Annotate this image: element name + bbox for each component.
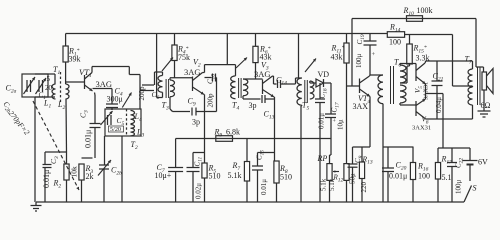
wire T4 secondary bottom to C13 (242, 96, 244, 99)
svg-text:100k: 100k (417, 6, 433, 15)
transformer T7 primary lower (468, 87, 473, 105)
resistor R8 (274, 161, 279, 183)
transistor VT1 (84, 75, 86, 89)
capacitor C3 emitter bypass (90, 123, 101, 125)
transformer T5 secondary (310, 81, 314, 99)
wire collector to C6 (139, 75, 141, 91)
ground bus wire (36, 201, 464, 203)
resistor R14 (387, 32, 404, 38)
svg-text:3AG: 3AG (96, 79, 113, 89)
svg-text:3p: 3p (192, 118, 200, 127)
wire T6 sec bottom to VT6 base (399, 103, 401, 105)
wire T2 right side (139, 91, 141, 110)
svg-text:S: S (473, 184, 477, 193)
transformer T2 winding L4 (131, 111, 135, 124)
resistor R4 (174, 34, 176, 46)
wire T3 secondary top to VT2 base (169, 78, 171, 80)
svg-text:3AG: 3AG (184, 67, 201, 77)
wire AGC bus (176, 138, 331, 140)
T2 tuning arrow (122, 93, 131, 108)
wire emitters join (425, 84, 427, 99)
capacitor C10 (205, 77, 212, 79)
speaker ground (483, 90, 485, 111)
resistor R3 (79, 164, 84, 180)
capacitor C2a (26, 80, 28, 92)
svg-text:100μ: 100μ (455, 180, 463, 195)
svg-text:510: 510 (280, 173, 292, 182)
resistor R7 (246, 139, 248, 162)
svg-text:6V: 6V (478, 158, 488, 167)
svg-text:10μ: 10μ (337, 119, 345, 130)
resistor R13 (361, 147, 363, 162)
svg-text:300μ: 300μ (107, 95, 123, 104)
T5 tuning arrow (305, 59, 316, 73)
transformer T6 primary (378, 75, 383, 104)
wire VT4 base (347, 85, 360, 87)
svg-text:5.1k: 5.1k (228, 171, 242, 180)
svg-text:20: 20 (45, 84, 53, 92)
transformer T3 core (165, 79, 167, 98)
RP wiper arrow (333, 171, 339, 173)
wire C10 feedback (216, 78, 218, 112)
wire battery row (438, 147, 470, 149)
svg-text:220: 220 (360, 182, 368, 193)
speaker (482, 72, 487, 90)
battery 6V (469, 148, 471, 160)
capacitor C16 (319, 83, 321, 99)
wire box top to L1 (35, 73, 55, 75)
transformer T6 secondary upper (400, 65, 406, 83)
svg-text:39k: 39k (69, 55, 81, 64)
svg-text:5.1: 5.1 (442, 173, 452, 182)
wire gang link dashed (33, 101, 79, 190)
wire VT1 base (66, 81, 85, 83)
wire VT2 emitter (203, 94, 206, 96)
transformer T3 primary (162, 72, 164, 76)
svg-text:0.01μ: 0.01μ (84, 130, 93, 148)
wire feedback rail A (352, 18, 476, 20)
capacitor C15 (258, 152, 275, 154)
svg-text:0.02μ: 0.02μ (195, 183, 203, 199)
transformer T4 core (238, 78, 240, 98)
capacitor C2b (104, 136, 106, 165)
transformer T2 core (126, 109, 128, 136)
svg-text:3AX: 3AX (353, 102, 369, 111)
transistor VT3 (262, 80, 264, 95)
oscillator T2 box (105, 109, 141, 136)
svg-text:6Ω: 6Ω (481, 101, 491, 110)
capacitor C19 (369, 34, 371, 42)
resistor R15 (409, 35, 411, 45)
transformer T5 core (304, 80, 306, 103)
wire rail B drop to T3 primary (156, 34, 158, 61)
capacitor C6 (142, 84, 154, 86)
switch S (469, 165, 471, 182)
potentiometer RP (330, 118, 332, 156)
wire rail B drop to T5 (298, 34, 300, 79)
wire decoupling node (383, 146, 414, 148)
ground (35, 202, 37, 206)
resistor R16 (412, 147, 414, 163)
wire supply rail B (66, 33, 388, 35)
wire VT4 collector to T6 (369, 75, 372, 76)
capacitor C20 (387, 147, 389, 168)
svg-text:43k: 43k (331, 53, 343, 62)
svg-text:510: 510 (209, 172, 221, 181)
svg-text:100: 100 (389, 38, 401, 47)
svg-text:100: 100 (418, 172, 430, 181)
svg-text:10μ+: 10μ+ (155, 171, 172, 180)
svg-text:2k: 2k (86, 172, 94, 181)
svg-text:5.1k: 5.1k (328, 178, 336, 191)
svg-text:5/20: 5/20 (110, 126, 121, 133)
resistor R10 (407, 16, 423, 22)
wire rail A drop to VT4 base (351, 19, 353, 87)
capacitor C11 (193, 152, 205, 154)
wire speaker to rail A (483, 67, 485, 72)
svg-text:0.01μ: 0.01μ (42, 170, 51, 188)
capacitor C1 trimmer (38, 80, 40, 92)
wire bias node to R2 (66, 152, 68, 164)
wire VT6 collector to T7 (424, 118, 427, 121)
svg-text:200p: 200p (207, 93, 215, 108)
diode VD (309, 81, 311, 83)
transformer T5 primary (299, 77, 302, 79)
transformer T4 secondary (243, 79, 248, 96)
wire T6 sec top to VT5 base (399, 64, 401, 66)
transformer T6 core (390, 66, 392, 104)
wire T6 center tap to R15 (400, 82, 407, 84)
resistor R5 (202, 163, 207, 178)
capacitor C5 (107, 115, 109, 125)
svg-text:10k: 10k (70, 166, 79, 178)
wire T2 bottom to ground (121, 136, 123, 202)
svg-text:100μ: 100μ (355, 54, 363, 69)
transistor VT2 (192, 77, 194, 92)
resistor R12 (344, 164, 349, 181)
svg-text:0.01μ: 0.01μ (318, 113, 326, 129)
resistor R9 (216, 136, 233, 142)
wire C14 to T5 primary (295, 78, 297, 84)
T4 tuning arrow (236, 58, 247, 69)
svg-text:0.04μ: 0.04μ (435, 97, 443, 113)
transformer T6 secondary lower (400, 85, 406, 103)
svg-text:6.8k: 6.8k (226, 128, 240, 137)
wire rail B drop to T4 (226, 34, 228, 65)
transistor VT5 (415, 66, 417, 81)
transistor VT4 (359, 79, 361, 94)
wire detector output (330, 83, 332, 114)
wire VT5 collector to T7 (424, 62, 427, 63)
wire box bottom to L1 (35, 96, 55, 98)
transformer T1 winding L2 (66, 84, 70, 99)
svg-text:0.01μ: 0.01μ (389, 172, 407, 181)
wire emitter tap to battery row (442, 94, 444, 149)
capacitor C21 (436, 61, 438, 81)
capacitor C7 (175, 139, 177, 168)
resistor R11 (346, 34, 348, 44)
transformer T4 primary (235, 65, 237, 76)
capacitor C17 (325, 113, 336, 115)
transistor VT6 (415, 101, 417, 116)
capacitor C2 base bypass (45, 151, 67, 153)
wire T4 secondary top to VT3 base (243, 78, 263, 80)
capacitor C14 (273, 75, 274, 77)
capacitor C13 (243, 98, 261, 100)
wire C3 to R3 bottom jog (82, 157, 93, 159)
capacitor C8 (352, 147, 354, 164)
svg-text:3AX31: 3AX31 (412, 125, 431, 132)
wire VT1 collector rail (91, 67, 93, 73)
svg-text:VD: VD (318, 70, 330, 79)
capacitor C9 (173, 111, 191, 113)
svg-text:200p: 200p (138, 86, 146, 101)
svg-text:75k: 75k (178, 53, 190, 62)
transformer T1 winding L1 (52, 84, 56, 99)
transformer T2 winding L3 (131, 125, 135, 136)
wire T5 primary bottom to ground (300, 105, 303, 107)
wire rail A drop to speaker (475, 19, 477, 68)
resistor R1 (65, 34, 67, 47)
wire VT1 emitter (94, 93, 97, 96)
T3 tuning arrow (162, 58, 173, 72)
wire L2 bottom to bias node (65, 99, 68, 152)
svg-text:RP: RP (317, 154, 328, 163)
transformer T7 core (477, 67, 479, 105)
transformer T7 primary upper (468, 69, 473, 87)
svg-text:5: 5 (47, 75, 51, 83)
svg-text:+: + (372, 51, 376, 58)
svg-text:0.01μ: 0.01μ (260, 179, 268, 195)
svg-text:3AG: 3AG (254, 69, 271, 79)
resistor R2 (64, 164, 69, 180)
resistor R17 (437, 148, 439, 163)
svg-text:5.1k: 5.1k (320, 178, 328, 191)
resistor R6 (255, 34, 257, 47)
capacitor C22 (451, 148, 453, 163)
wire VT3 emitter (273, 96, 276, 98)
wire rail B right drop to T7 tap (452, 35, 454, 87)
capacitor C4 (93, 88, 113, 90)
wire VT2 collector to T4 (203, 72, 205, 74)
wire VT4 emitter (369, 97, 371, 148)
wire emitter bracket (353, 146, 371, 148)
wire gang left to ground (34, 97, 36, 202)
svg-text:3p: 3p (249, 101, 257, 110)
transformer T3 secondary (170, 80, 175, 97)
wire T3 secondary bottom (169, 97, 171, 109)
svg-text:50μ: 50μ (349, 173, 357, 184)
capacitor C2a gang box (22, 74, 48, 97)
transformer T1 core (60, 72, 62, 104)
